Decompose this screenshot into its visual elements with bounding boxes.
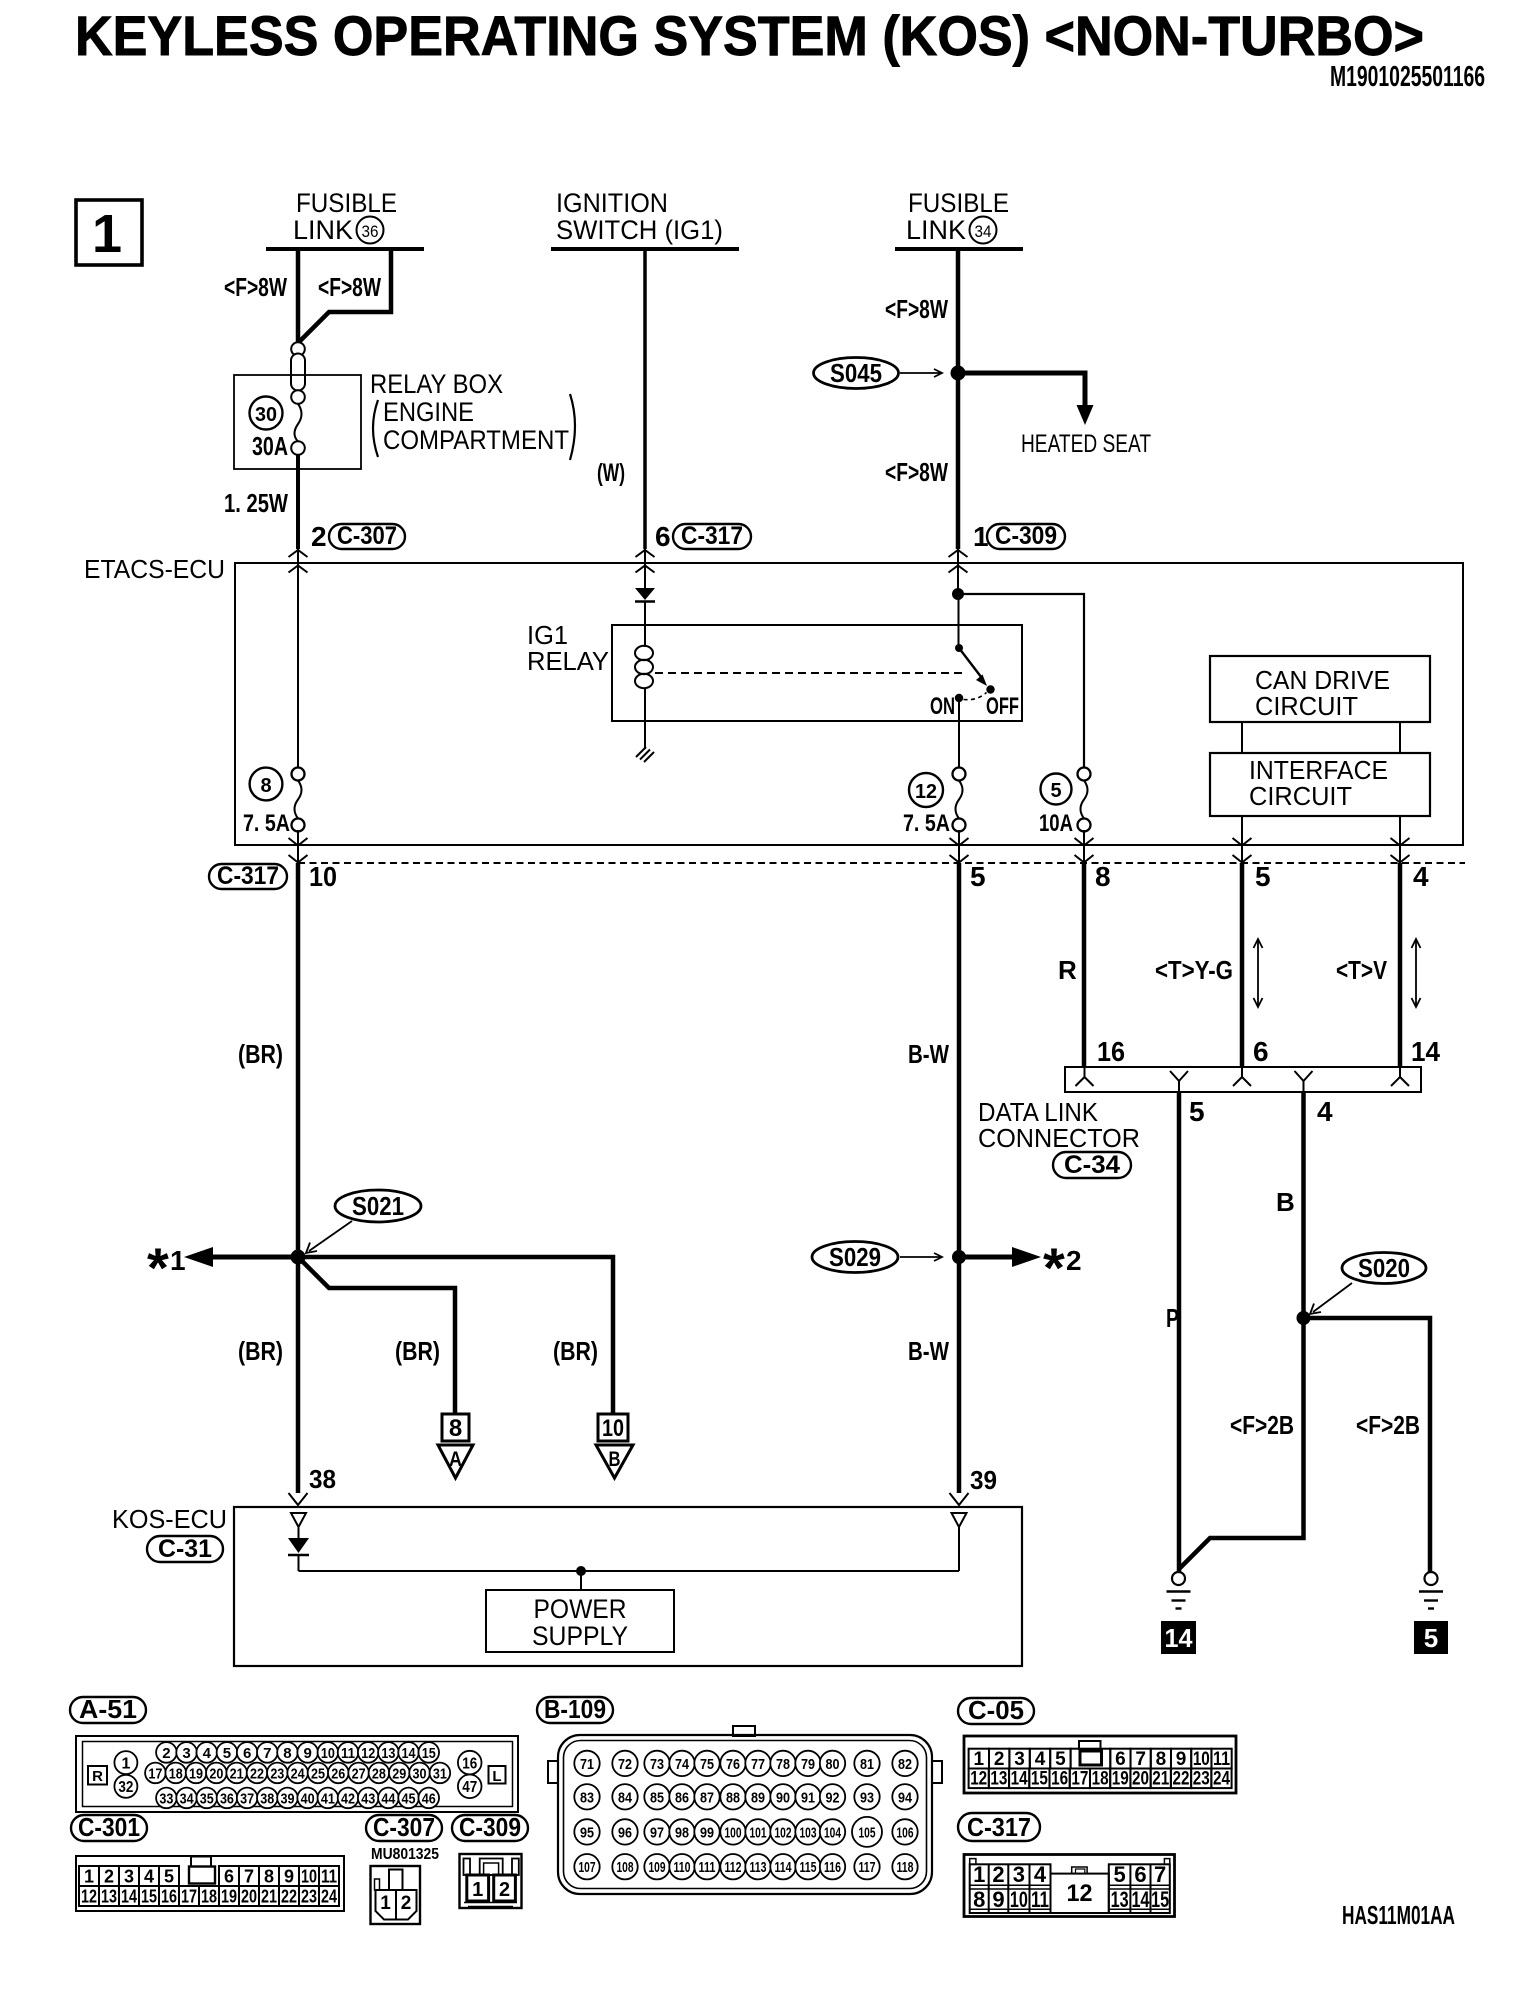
svg-text:8: 8 [283, 1745, 291, 1762]
connector C-307 part number MU801325 [371, 1846, 439, 1863]
svg-text:8: 8 [1156, 1749, 1167, 1770]
fusible link 34 supply bar [895, 247, 1023, 251]
junction S020 node [1297, 1311, 1311, 1325]
svg-text:12: 12 [361, 1745, 375, 1762]
svg-text:39: 39 [970, 1465, 997, 1495]
connector view C-301 tag [71, 1812, 147, 1842]
svg-text:10: 10 [1010, 1887, 1028, 1912]
connector C-301 pins 12-24 [79, 1886, 339, 1907]
drawing number HAS11M01AA [1342, 1900, 1455, 1930]
svg-text:93: 93 [860, 1789, 874, 1806]
svg-text:43: 43 [361, 1791, 375, 1808]
svg-text:<T>Y-G: <T>Y-G [1155, 955, 1233, 985]
svg-text:28: 28 [372, 1766, 386, 1783]
connector tag C-317 (top) [673, 522, 751, 550]
connector C-05 pins 12-24 [969, 1769, 1232, 1790]
relay coil L1 [635, 646, 653, 688]
svg-text:5: 5 [1113, 1862, 1125, 1887]
svg-text:21: 21 [261, 1887, 277, 1907]
fuse 30 element 30A [291, 404, 305, 455]
KOS pin 39 terminal fork [950, 1493, 969, 1505]
svg-text:118: 118 [897, 1859, 914, 1876]
pin 39 label [970, 1465, 997, 1495]
svg-text:(BR): (BR) [238, 1039, 283, 1069]
svg-text:KEYLESS OPERATING SYSTEM (KOS): KEYLESS OPERATING SYSTEM (KOS) <NON-TURB… [75, 4, 1424, 67]
svg-text:C-307: C-307 [337, 522, 397, 550]
terminal crossing pin 8 (ETACS) [1075, 838, 1094, 863]
svg-text:100: 100 [725, 1824, 742, 1841]
svg-text:24: 24 [291, 1766, 306, 1783]
svg-text:22: 22 [250, 1766, 264, 1783]
connector C-317 pins 5-7 and 13-15 [1109, 1862, 1170, 1913]
svg-text:HEATED SEAT: HEATED SEAT [1021, 430, 1151, 458]
svg-text:10: 10 [301, 1867, 317, 1887]
svg-text:IGNITION: IGNITION [556, 188, 668, 218]
wire label (BR) lower-3 [553, 1336, 598, 1366]
connector view A-51 tag [70, 1694, 146, 1724]
wire CAN to interface (left) [1241, 722, 1243, 753]
connector view C-309 body [460, 1854, 522, 1908]
wire fuse8 to ETACS pin 10 [297, 830, 299, 863]
svg-text:16: 16 [161, 1887, 177, 1907]
CAN DRIVE CIRCUIT block [1210, 656, 1430, 722]
svg-text:34: 34 [975, 222, 992, 241]
svg-text:C-301: C-301 [78, 1812, 140, 1842]
connector view A-51 body [76, 1736, 518, 1812]
svg-text:103: 103 [800, 1824, 817, 1841]
DLC pin 6 terminal [1233, 1067, 1251, 1086]
off-page arrow *1 [184, 1247, 298, 1267]
svg-text:9: 9 [1176, 1749, 1187, 1770]
wire label (BR) lower-2 [395, 1336, 440, 1366]
svg-text:5: 5 [1050, 780, 1061, 802]
fuse 8 circled number [250, 768, 283, 801]
terminal crossing pin 5 (ETACS) [950, 838, 969, 863]
svg-text:RELAY BOX: RELAY BOX [370, 369, 503, 399]
svg-text:*: * [147, 1236, 169, 1299]
svg-text:74: 74 [675, 1756, 690, 1773]
svg-text:92: 92 [826, 1789, 840, 1806]
splice S045 [814, 358, 943, 389]
svg-text:12: 12 [1067, 1880, 1093, 1907]
IG1 relay label [527, 620, 609, 676]
wire label <F>2B (right) [1356, 1410, 1420, 1440]
svg-text:7: 7 [1154, 1862, 1166, 1887]
svg-text:10: 10 [602, 1415, 624, 1442]
svg-text:14: 14 [121, 1887, 137, 1907]
svg-text:LINK: LINK [293, 215, 353, 245]
terminal crossing pin 1 into ETACS [949, 549, 968, 573]
svg-text:CIRCUIT: CIRCUIT [1255, 691, 1358, 721]
svg-text:S020: S020 [1358, 1253, 1410, 1283]
title KEYLESS OPERATING SYSTEM (KOS) <NON-TURBO> [75, 4, 1424, 67]
svg-text:15: 15 [422, 1745, 436, 1762]
POWER SUPPLY block [486, 1590, 674, 1652]
svg-text:19: 19 [221, 1887, 237, 1907]
junction S021 node [291, 1250, 306, 1265]
ground (IG1 relay coil) [636, 747, 654, 762]
DLC pin 14 terminal [1391, 1067, 1409, 1086]
svg-text:15: 15 [1031, 1769, 1048, 1790]
wire label <F>8W (FL34 upper) [885, 294, 948, 324]
svg-text:31: 31 [433, 1766, 447, 1783]
svg-text:SWITCH (IG1): SWITCH (IG1) [556, 215, 723, 245]
svg-text:B-W: B-W [908, 1336, 949, 1366]
wire fusible link 34 drop <F>8W upper [956, 249, 961, 373]
svg-text:33: 33 [159, 1791, 173, 1808]
svg-text:22: 22 [281, 1887, 297, 1907]
svg-text:*: * [1043, 1236, 1065, 1299]
svg-text:117: 117 [859, 1859, 876, 1876]
svg-text:36: 36 [220, 1791, 234, 1808]
svg-text:30A: 30A [252, 431, 288, 461]
svg-text:2: 2 [162, 1745, 170, 1762]
svg-text:2: 2 [104, 1867, 114, 1887]
svg-text:16: 16 [1097, 1036, 1125, 1067]
svg-text:11: 11 [321, 1867, 337, 1887]
svg-text:10: 10 [309, 861, 337, 892]
svg-text:8: 8 [973, 1887, 985, 1912]
svg-text:34: 34 [180, 1791, 195, 1808]
wire label 1.25W [224, 488, 288, 518]
svg-text:10: 10 [1193, 1749, 1210, 1770]
svg-text:17: 17 [148, 1766, 162, 1783]
svg-text:41: 41 [321, 1791, 335, 1808]
svg-text:12: 12 [970, 1769, 987, 1790]
svg-text:17: 17 [1071, 1769, 1088, 1790]
svg-text:77: 77 [751, 1756, 765, 1773]
svg-text:5: 5 [1255, 861, 1271, 892]
svg-text:12: 12 [81, 1887, 97, 1907]
svg-text:8: 8 [1095, 861, 1111, 892]
svg-text:94: 94 [898, 1789, 913, 1806]
fuse 8 element [292, 768, 305, 832]
wire fusible link 36 right drop <F>8W [300, 249, 392, 342]
svg-text:20: 20 [209, 1766, 223, 1783]
junction node to fuse 5 branch [952, 588, 964, 600]
svg-text:(BR): (BR) [395, 1336, 440, 1366]
svg-text:38: 38 [309, 1464, 336, 1494]
svg-text:CONNECTOR: CONNECTOR [978, 1123, 1140, 1153]
svg-text:25: 25 [311, 1766, 325, 1783]
svg-text:ON: ON [930, 693, 955, 720]
svg-text:7: 7 [263, 1745, 271, 1762]
pin 8 label (ETACS) [1095, 861, 1111, 892]
pin 6 label [655, 521, 671, 552]
svg-text:19: 19 [189, 1766, 203, 1783]
connector view C-05 body [964, 1736, 1236, 1793]
svg-text:23: 23 [1193, 1769, 1210, 1790]
connector C-317 pins 1-4 and 8-11 [970, 1862, 1051, 1913]
svg-text:R: R [1058, 955, 1077, 985]
DLC pin 4 terminal [1295, 1071, 1313, 1092]
svg-text:8: 8 [260, 775, 271, 797]
CAN data flow arrow (Y-G) [1254, 939, 1263, 1007]
fuse 5 circled number [1041, 774, 1072, 805]
fusible link 36 supply bar [266, 247, 424, 251]
svg-text:45: 45 [402, 1791, 416, 1808]
wire interface to pin 4 [1399, 816, 1401, 863]
KOS-ECU box [234, 1507, 1022, 1666]
connector A-51 pins 1 and 32 [114, 1751, 137, 1798]
svg-text:3: 3 [182, 1745, 190, 1762]
svg-text:113: 113 [750, 1859, 767, 1876]
svg-text:14: 14 [1131, 1887, 1150, 1912]
svg-text:11: 11 [1213, 1749, 1230, 1770]
svg-text:5: 5 [223, 1745, 231, 1762]
connector B-109 pins 71-82 [574, 1751, 917, 1776]
connector C-05 pins 1-11 [969, 1749, 1232, 1770]
wire label <T>V [1336, 955, 1388, 985]
svg-text:POWER: POWER [534, 1594, 627, 1624]
KOS-ECU label [112, 1504, 227, 1534]
svg-text:6: 6 [224, 1867, 234, 1887]
connector A-51 pins 33-46 [156, 1788, 439, 1809]
svg-text:C-34: C-34 [1064, 1151, 1120, 1179]
svg-text:95: 95 [580, 1824, 594, 1841]
fuse 5 rating 10A [1039, 810, 1073, 837]
wire fuse12 to ETACS pin 5 [958, 830, 960, 863]
svg-text:16: 16 [462, 1756, 477, 1773]
svg-text:84: 84 [618, 1789, 633, 1806]
wire S020 down to ground 14 <F>2B [1180, 1318, 1304, 1569]
svg-text:18: 18 [201, 1887, 217, 1907]
junction S045 node [951, 366, 966, 381]
svg-text:6: 6 [1253, 1036, 1269, 1067]
svg-text:116: 116 [824, 1859, 841, 1876]
svg-text:88: 88 [726, 1789, 740, 1806]
svg-text:4: 4 [203, 1745, 212, 1762]
connector view B-109 tag [537, 1694, 613, 1724]
DATA LINK CONNECTOR label [978, 1097, 1140, 1153]
svg-text:112: 112 [725, 1859, 742, 1876]
svg-text:<F>8W: <F>8W [885, 294, 948, 324]
svg-text:B-109: B-109 [544, 1694, 606, 1724]
ground 5 tag [1414, 1621, 1448, 1654]
svg-text:S045: S045 [830, 358, 882, 388]
wire S021 branch right [298, 1257, 613, 1414]
INTERFACE CIRCUIT block [1210, 753, 1430, 816]
svg-text:5: 5 [1424, 1623, 1438, 1653]
svg-text:3: 3 [124, 1867, 134, 1887]
svg-text:114: 114 [775, 1859, 792, 1876]
wire S021 to KOS pin 38 (BR) [296, 1257, 301, 1493]
svg-text:S029: S029 [829, 1242, 881, 1272]
svg-text:26: 26 [331, 1766, 345, 1783]
wire label (BR) upper [238, 1039, 283, 1069]
svg-text:C-317: C-317 [217, 862, 279, 890]
svg-text:81: 81 [860, 1756, 874, 1773]
svg-text:<F>8W: <F>8W [318, 272, 381, 302]
relay switch labels ON OFF [930, 693, 1019, 720]
svg-text:1: 1 [84, 1867, 94, 1887]
junction S029 node [952, 1250, 966, 1264]
svg-text:7: 7 [244, 1867, 254, 1887]
power source FUSIBLE LINK 36 label [293, 188, 397, 245]
svg-text:5: 5 [1189, 1096, 1205, 1127]
wire label P [1166, 1303, 1179, 1333]
svg-text:82: 82 [898, 1756, 912, 1773]
pin 10 label [309, 861, 337, 892]
svg-text:A-51: A-51 [79, 1694, 137, 1724]
svg-text:30: 30 [413, 1766, 427, 1783]
svg-text:4: 4 [1034, 1862, 1047, 1887]
wire DLC pin5 to ground P [1177, 1092, 1182, 1572]
svg-text:1: 1 [170, 1245, 186, 1276]
fuse 30 circled number [250, 397, 283, 430]
pin 1 label [973, 521, 989, 552]
svg-text:9: 9 [992, 1887, 1004, 1912]
svg-text:S021: S021 [352, 1191, 404, 1221]
svg-text:8: 8 [264, 1867, 274, 1887]
svg-text:2: 2 [1066, 1245, 1082, 1276]
load label HEATED SEAT [1021, 430, 1151, 458]
svg-text:(W): (W) [597, 459, 625, 487]
off-page arrow *2 [959, 1247, 1041, 1267]
svg-text:11: 11 [341, 1745, 355, 1762]
svg-text:1: 1 [92, 204, 122, 264]
svg-text:42: 42 [341, 1791, 355, 1808]
svg-text:7. 5A: 7. 5A [243, 810, 290, 837]
svg-text:37: 37 [240, 1791, 254, 1808]
svg-text:10: 10 [321, 1745, 335, 1762]
inter-sheet terminal 8/A [438, 1414, 473, 1478]
wire label <F>2B (left) [1230, 1410, 1294, 1440]
svg-text:A: A [449, 1448, 462, 1471]
ignition switch supply bar [551, 247, 739, 251]
wire pin1 to relay switch [957, 563, 960, 648]
svg-text:6: 6 [655, 521, 671, 552]
svg-text:C-05: C-05 [968, 1695, 1024, 1725]
svg-text:101: 101 [750, 1824, 767, 1841]
svg-text:23: 23 [301, 1887, 317, 1907]
wire to power supply [580, 1571, 582, 1590]
terminal crossing pin 6 into ETACS [636, 549, 655, 573]
splice S020 [1310, 1253, 1426, 1315]
relay switch SW1 [955, 644, 995, 702]
svg-text:FUSIBLE: FUSIBLE [296, 188, 397, 218]
fuse 5 element [1078, 768, 1091, 832]
svg-text:15: 15 [1151, 1887, 1169, 1912]
svg-text:C-307: C-307 [373, 1812, 435, 1842]
svg-text:4: 4 [1413, 861, 1429, 892]
wire pin4 to DLC pin14 <T>V [1398, 863, 1403, 1067]
pin 38 label [309, 1464, 336, 1494]
svg-text:1: 1 [973, 1862, 985, 1887]
svg-text:110: 110 [674, 1859, 691, 1876]
svg-text:23: 23 [270, 1766, 284, 1783]
svg-text:1. 25W: 1. 25W [224, 488, 288, 518]
svg-text:(BR): (BR) [553, 1336, 598, 1366]
connector tag C-307 [329, 522, 405, 550]
connector view C-301 body [76, 1856, 344, 1911]
svg-text:<F>2B: <F>2B [1230, 1410, 1294, 1440]
KOS pin 38 connector symbol [291, 1513, 306, 1527]
DLC pin 16 terminal [1076, 1067, 1094, 1086]
svg-text:6: 6 [1134, 1862, 1146, 1887]
ground 5 symbol [1419, 1572, 1443, 1609]
off-page label *2 [1043, 1236, 1082, 1299]
svg-text:10A: 10A [1039, 810, 1073, 837]
svg-text:22: 22 [1173, 1769, 1190, 1790]
wire label <T>Y-G [1155, 955, 1233, 985]
connector C-301 pins 1-11 [79, 1866, 339, 1887]
wire interface to pin 5 [1241, 816, 1243, 863]
svg-text:12: 12 [915, 781, 937, 803]
svg-text:FUSIBLE: FUSIBLE [908, 188, 1009, 218]
svg-text:6: 6 [243, 1745, 251, 1762]
svg-text:P: P [1166, 1303, 1179, 1333]
wire pin8 to DLC pin16 R [1082, 863, 1087, 1067]
wire fusible link 36 left drop <F>8W [296, 249, 301, 344]
svg-text:24: 24 [321, 1887, 337, 1907]
svg-text:MU801325: MU801325 [371, 1846, 439, 1863]
DLC pin 5 label [1189, 1096, 1205, 1127]
sheet number box 1 [76, 200, 142, 265]
wire S021 branch diagonal [300, 1259, 456, 1415]
wire S029 to KOS pin 39 B-W [957, 1257, 962, 1493]
connector view C-05 tag [958, 1695, 1034, 1725]
connector view C-317 tag [958, 1812, 1040, 1842]
svg-text:13: 13 [990, 1769, 1007, 1790]
fuse 12 circled number [909, 773, 943, 807]
connector tag C-31 [147, 1535, 223, 1563]
svg-text:<F>2B: <F>2B [1356, 1410, 1420, 1440]
svg-text:115: 115 [800, 1859, 817, 1876]
svg-text:6: 6 [1115, 1749, 1126, 1770]
svg-text:83: 83 [580, 1789, 594, 1806]
svg-text:OFF: OFF [986, 693, 1019, 720]
fusible link connector symbol [291, 342, 305, 404]
svg-text:30: 30 [255, 404, 277, 426]
svg-text:5: 5 [1055, 1749, 1066, 1770]
pin 5 label (ETACS) [970, 861, 986, 892]
svg-text:47: 47 [462, 1779, 477, 1796]
inter-sheet terminal 10/B [596, 1414, 633, 1478]
svg-text:86: 86 [675, 1789, 689, 1806]
svg-text:CIRCUIT: CIRCUIT [1249, 781, 1352, 811]
fuse 12 element [953, 768, 966, 832]
svg-text:ENGINE: ENGINE [383, 397, 474, 427]
wire relay switch to fuse 12 [958, 700, 960, 767]
DLC pin 4 label [1317, 1096, 1333, 1127]
svg-text:<F>8W: <F>8W [885, 457, 948, 487]
svg-text:ETACS-ECU: ETACS-ECU [84, 554, 225, 584]
svg-text:91: 91 [801, 1789, 815, 1806]
svg-text:17: 17 [181, 1887, 197, 1907]
svg-text:99: 99 [700, 1824, 714, 1841]
svg-text:9: 9 [303, 1745, 311, 1762]
svg-text:1: 1 [472, 1879, 483, 1901]
svg-text:102: 102 [775, 1824, 792, 1841]
terminal crossing pin 10 [289, 838, 308, 863]
svg-text:16: 16 [1051, 1769, 1068, 1790]
wire diode to relay coil [644, 602, 646, 648]
power source FUSIBLE LINK 34 label [906, 188, 1009, 245]
svg-text:24: 24 [1213, 1769, 1230, 1790]
svg-text:98: 98 [675, 1824, 689, 1841]
wire label <F>8W (FL34 lower) [885, 457, 948, 487]
ETACS-ECU label [84, 554, 225, 584]
ETACS bottom connector dashed line [298, 862, 1465, 864]
svg-text:96: 96 [618, 1824, 632, 1841]
wire ETACS internal pin2 to fuse 8 [297, 563, 299, 767]
svg-text:38: 38 [260, 1791, 274, 1808]
svg-text:SUPPLY: SUPPLY [532, 1621, 628, 1651]
svg-text:97: 97 [650, 1824, 664, 1841]
junction power supply node [576, 1566, 586, 1576]
wire label R [1058, 955, 1077, 985]
